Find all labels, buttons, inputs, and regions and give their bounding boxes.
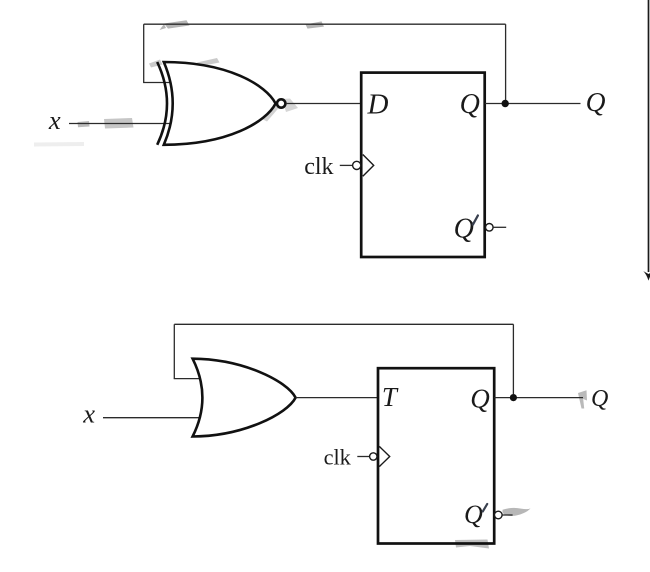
clk edge-trigger wedge (bottom circuit) xyxy=(379,446,389,466)
wire XNOR output to D input xyxy=(287,103,361,105)
smudge right of bottom Q' bubble xyxy=(503,508,531,516)
wire input x to XNOR xyxy=(69,123,170,125)
smudge near xnor tip lower edge xyxy=(263,105,280,122)
clk input bubble (top circuit) xyxy=(353,161,361,169)
svg-text:Q: Q xyxy=(464,500,483,529)
svg-text:clk: clk xyxy=(304,154,333,180)
Q' output bubble (bottom circuit) xyxy=(495,511,503,519)
xnor gate U1 output bubble xyxy=(277,99,285,107)
svg-text:x: x xyxy=(82,399,95,429)
wire input x to OR gate xyxy=(103,417,200,419)
wire feedback left vertical (top circuit) xyxy=(143,24,145,82)
smudge on x input wire 2 xyxy=(104,118,134,129)
clk edge-trigger wedge (top circuit) xyxy=(363,155,374,177)
smudge on feedback line right xyxy=(306,21,325,28)
prime mark of Q' (bottom circuit) xyxy=(483,504,487,511)
smudge on feedback line left xyxy=(160,20,190,30)
svg-text:x: x xyxy=(48,105,61,135)
svg-text:D: D xyxy=(367,88,389,120)
wire feedback to XNOR top input xyxy=(143,82,171,84)
clk input bubble (bottom circuit) xyxy=(370,453,377,460)
page border vertical rule (right edge) xyxy=(648,0,650,272)
wire feedback right vertical into node Q (top circuit) xyxy=(505,24,507,100)
t flip-flop U4 box xyxy=(378,368,494,543)
svg-text:Q: Q xyxy=(586,86,606,117)
Q' output bubble (top circuit) xyxy=(486,224,494,232)
svg-text:Q: Q xyxy=(591,386,608,412)
wire clk stub (bottom circuit) xyxy=(357,456,369,458)
svg-text:Q: Q xyxy=(454,214,474,245)
svg-text:T: T xyxy=(382,382,399,412)
wire OR output to T input xyxy=(296,397,378,399)
xnor gate U1 extra input curve xyxy=(157,62,167,145)
wire feedback top horizontal (bottom circuit) xyxy=(174,323,513,325)
wire clk stub (top circuit) xyxy=(340,164,353,166)
d flip-flop U2 box xyxy=(361,73,485,257)
smudge on xnor top edge xyxy=(197,58,220,67)
xnor gate U1 body xyxy=(164,62,276,145)
border rule arrowhead xyxy=(643,271,650,281)
wire Q' stub (top circuit) xyxy=(493,226,506,228)
wire feedback right vertical into node Q (bottom circuit) xyxy=(512,324,514,394)
smudge below T flip-flop bottom edge xyxy=(455,540,489,549)
smudge at top of xnor curves xyxy=(149,60,163,68)
svg-text:Q: Q xyxy=(470,384,490,414)
node Q junction dot (bottom circuit) xyxy=(510,394,517,401)
wire Q' stub (bottom circuit) xyxy=(502,514,512,516)
prime mark of Q' (top circuit) xyxy=(473,216,478,225)
node Q junction dot (top circuit) xyxy=(502,100,509,107)
faint smudge lower left xyxy=(34,142,84,147)
or gate U3 body xyxy=(193,359,296,437)
smudge flag left of bottom Q label xyxy=(578,390,587,408)
wire Q output to label (bottom circuit) xyxy=(494,397,583,399)
wire feedback to OR top input xyxy=(174,378,201,380)
smudge on x input wire 1 xyxy=(78,121,90,127)
wire Q output to label (top circuit) xyxy=(485,103,581,105)
wire feedback left vertical (bottom circuit) xyxy=(173,324,175,378)
svg-text:clk: clk xyxy=(324,444,352,469)
svg-text:Q: Q xyxy=(460,89,480,120)
smudge at output bubble xyxy=(282,99,298,113)
wire feedback top horizontal (top circuit) xyxy=(144,23,506,25)
